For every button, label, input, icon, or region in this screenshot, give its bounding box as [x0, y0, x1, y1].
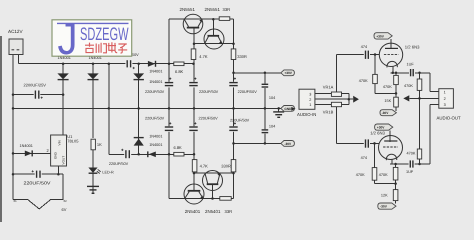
svg-text:1UF: 1UF [406, 170, 414, 174]
svg-text:1K: 1K [97, 142, 102, 147]
svg-text:15K: 15K [384, 99, 391, 103]
svg-text:4.7K: 4.7K [200, 163, 209, 168]
svg-text:2N5401: 2N5401 [205, 209, 221, 214]
svg-text:474: 474 [361, 156, 367, 160]
svg-text:1UF: 1UF [407, 62, 415, 66]
svg-text:AUDIO-IN: AUDIO-IN [297, 112, 316, 117]
svg-text:1N4001: 1N4001 [149, 143, 162, 147]
svg-text:3: 3 [309, 92, 311, 96]
svg-text:470K: 470K [404, 84, 413, 88]
svg-text:2N5551: 2N5551 [205, 7, 221, 12]
svg-text:-30V: -30V [284, 142, 292, 146]
svg-text:VR1B: VR1B [323, 110, 334, 115]
svg-text:GND: GND [54, 151, 58, 159]
svg-text:220UF/50V: 220UF/50V [145, 90, 165, 94]
svg-text:1/2 6N3: 1/2 6N3 [370, 131, 385, 136]
svg-text:1: 1 [309, 103, 311, 107]
svg-text:470K: 470K [383, 85, 392, 89]
svg-text:220UF/50V: 220UF/50V [230, 118, 250, 122]
svg-text:1: 1 [444, 91, 446, 95]
svg-text:2: 2 [309, 98, 311, 102]
svg-text:02: 02 [64, 199, 68, 203]
svg-text:J: J [58, 13, 78, 64]
svg-text:3: 3 [444, 103, 446, 107]
svg-text:VOUT: VOUT [62, 156, 66, 165]
svg-text:6.8K: 6.8K [175, 69, 184, 74]
svg-text:VR1A: VR1A [323, 84, 334, 89]
svg-text:01: 01 [14, 199, 18, 203]
svg-text:33R: 33R [225, 209, 233, 214]
svg-text:220UF/50V: 220UF/50V [238, 90, 258, 94]
svg-text:VIN: VIN [58, 140, 62, 145]
svg-text:330R: 330R [237, 54, 247, 59]
svg-text:2N5551: 2N5551 [180, 7, 196, 12]
svg-text:4.7K: 4.7K [199, 54, 208, 59]
svg-text:2: 2 [444, 97, 446, 101]
svg-text:AC12V: AC12V [8, 29, 23, 34]
svg-text:470K: 470K [379, 173, 388, 177]
svg-text:LED-R: LED-R [102, 170, 114, 174]
svg-text:GND: GND [284, 107, 292, 111]
svg-text:-30V: -30V [380, 205, 388, 209]
svg-text:1N4001: 1N4001 [149, 80, 162, 84]
svg-text:+30V: +30V [377, 126, 385, 130]
svg-text:104: 104 [269, 125, 275, 129]
svg-text:1/2 6N3: 1/2 6N3 [405, 45, 420, 50]
svg-text:-30V: -30V [382, 111, 390, 115]
svg-text:474: 474 [361, 45, 367, 49]
svg-text:33R: 33R [223, 7, 231, 12]
svg-text:2N5401: 2N5401 [185, 209, 201, 214]
svg-text:220UF/50V: 220UF/50V [145, 116, 165, 120]
svg-text:+30V: +30V [284, 71, 292, 75]
svg-text:12K: 12K [381, 193, 388, 197]
svg-text:104: 104 [269, 96, 275, 100]
svg-text:1N4001: 1N4001 [149, 70, 162, 74]
svg-text:470K: 470K [407, 152, 416, 156]
svg-text:6V: 6V [62, 207, 67, 212]
svg-text:220UF/50V: 220UF/50V [24, 181, 51, 186]
svg-text:+30V: +30V [376, 34, 384, 38]
svg-text:78L05: 78L05 [67, 138, 79, 143]
svg-text:330R: 330R [221, 163, 231, 168]
svg-text:220UF/50V: 220UF/50V [109, 162, 129, 166]
svg-text:SDZEGW: SDZEGW [80, 24, 129, 44]
svg-text:AUDIO-OUT: AUDIO-OUT [437, 116, 461, 121]
svg-text:470K: 470K [359, 79, 368, 83]
svg-text:220UF/50V: 220UF/50V [199, 90, 219, 94]
svg-text:470K: 470K [356, 173, 365, 177]
svg-text:1N4001: 1N4001 [149, 134, 162, 138]
svg-text:2200UF/25V: 2200UF/25V [24, 83, 47, 88]
svg-text:6.8K: 6.8K [174, 145, 183, 150]
svg-text:1N4001: 1N4001 [20, 144, 33, 148]
svg-text:220UF/50V: 220UF/50V [199, 116, 219, 120]
